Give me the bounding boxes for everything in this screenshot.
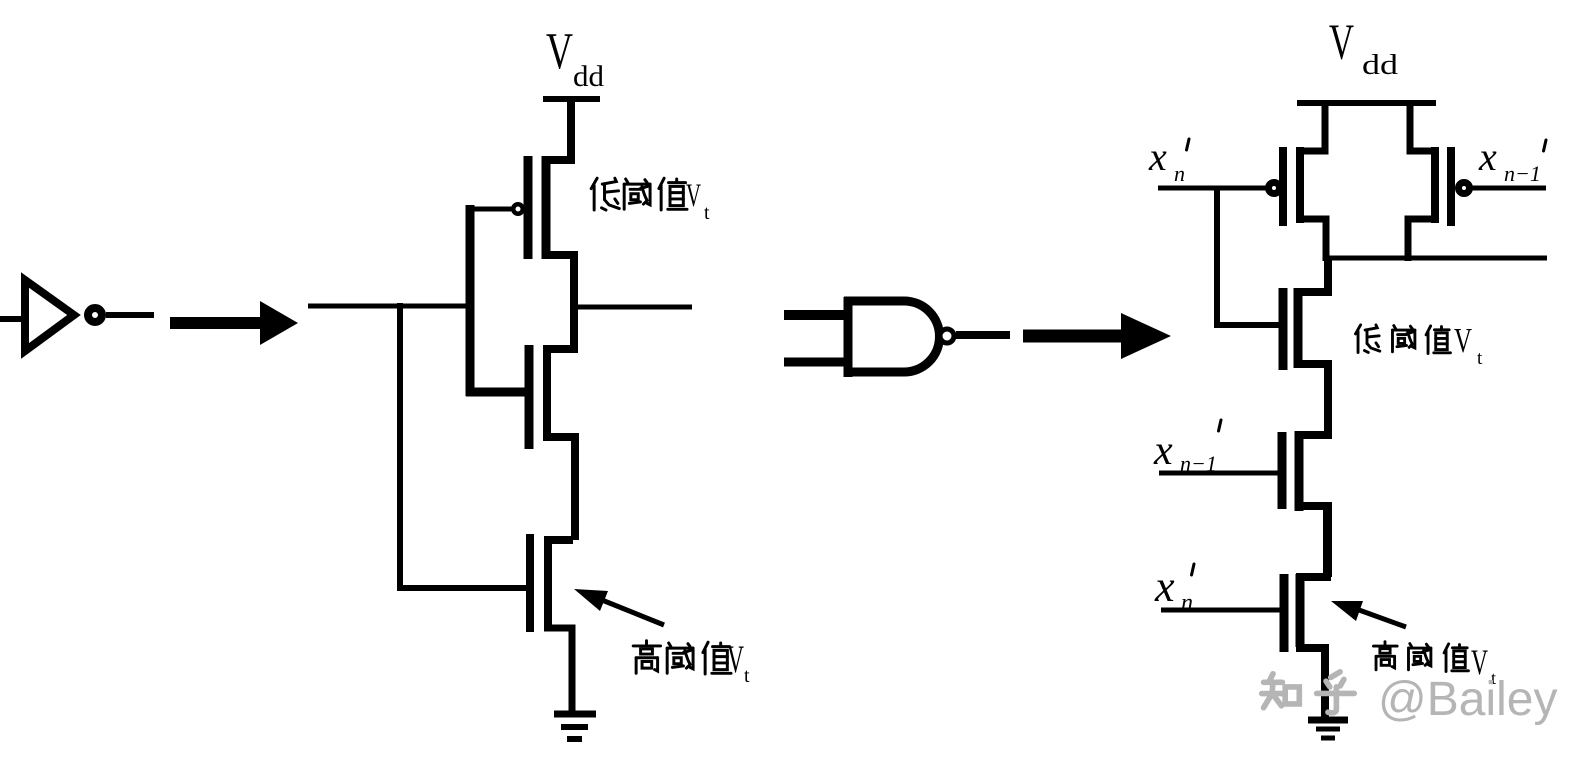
annotation arrow to high-Vt left — [574, 589, 664, 625]
transistor Q7 NMOS channel bar — [1295, 431, 1304, 511]
wire junction node line — [1329, 256, 1547, 261]
transistor Q6 drain lead — [1294, 256, 1328, 292]
svg-text:V: V — [546, 23, 573, 80]
wire branch to high-Vt gate — [400, 303, 528, 588]
inverter output wire — [106, 312, 154, 318]
NAND output wire — [956, 331, 1010, 339]
NAND gate input wires — [784, 315, 850, 362]
ground symbol right — [1308, 720, 1348, 738]
transistor Q6 NMOS low-Vt channel bar — [1294, 288, 1303, 368]
inverter gate symbol triangle — [25, 280, 74, 351]
transistor Q3 source lead — [544, 628, 572, 712]
svg-text:V: V — [1329, 15, 1354, 71]
transistor Q4 PMOS gate bar — [1279, 147, 1287, 226]
transistor Q6 NMOS low-Vt gate bar — [1279, 288, 1288, 370]
svg-text:n: n — [1181, 590, 1193, 616]
label low threshold Vt left — [591, 178, 687, 210]
label xn' bottom — [1154, 562, 1194, 616]
transistor Q2 NMOS low-Vt gate stub — [466, 388, 531, 397]
transistor Q8 NMOS high-Vt gate bar — [1280, 574, 1289, 652]
transistor Q7 NMOS xn-1 gate bar — [1278, 432, 1287, 509]
svg-text:x: x — [1148, 134, 1167, 179]
label high threshold Vt left — [633, 641, 731, 674]
power Vdd rail left — [543, 96, 600, 102]
wire xn' input — [1158, 186, 1267, 191]
wire branch xn' down to N3 gate — [1217, 188, 1281, 325]
wire input to inverter circuit — [308, 304, 469, 309]
svg-text:V: V — [1454, 321, 1472, 360]
svg-text:dd: dd — [573, 60, 604, 93]
transistor Q2 source lead — [543, 437, 575, 540]
svg-text:t: t — [704, 202, 710, 224]
big arrow 2 — [1023, 313, 1171, 359]
svg-text:t: t — [1477, 348, 1483, 369]
wire output left circuit — [578, 305, 692, 310]
wire gate rail — [466, 205, 475, 396]
svg-text:V: V — [686, 178, 701, 214]
transistor Q5 PMOS gate bar — [1447, 147, 1455, 226]
transistor Q5 PMOS right bubble — [1459, 183, 1470, 194]
svg-text:x: x — [1153, 428, 1173, 474]
label Vdd left — [546, 23, 604, 93]
inverter output bubble — [88, 308, 102, 322]
transistor Q2 drain lead — [543, 345, 574, 353]
NAND gate bubble — [940, 329, 954, 343]
transistor Q7 source lead — [1295, 506, 1328, 577]
label xn' top left — [1148, 134, 1189, 186]
NAND gate body — [844, 297, 940, 377]
inverter gate symbol input wire — [0, 316, 24, 322]
svg-text:x: x — [1154, 562, 1175, 611]
annotation arrow to high-Vt right — [1331, 601, 1406, 627]
transistor Q6 source lead — [1294, 364, 1328, 439]
transistor Q3 NMOS high-Vt channel bar — [544, 536, 552, 630]
power Vdd rail right — [1297, 100, 1436, 106]
svg-text:V: V — [727, 638, 744, 681]
transistor Q2 NMOS low-Vt channel bar — [543, 345, 551, 439]
transistor Q7 drain lead — [1295, 364, 1328, 435]
transistor Q4 source lead to Vdd — [1296, 103, 1325, 151]
label high threshold Vt right — [1373, 642, 1468, 672]
big arrow 1 — [170, 301, 298, 345]
svg-text:n−1: n−1 — [1180, 451, 1217, 476]
transistor Q1 PMOS low-Vt channel bar — [542, 156, 551, 259]
transistor Q5 drain lead — [1408, 219, 1439, 261]
wire xn' gate input bottom — [1161, 608, 1280, 613]
transistor Q4 drain lead — [1296, 219, 1326, 261]
svg-text:t: t — [744, 665, 750, 687]
wire xn-1 gate input — [1159, 471, 1278, 476]
transistor Q5 PMOS channel bar — [1431, 147, 1439, 223]
svg-text:dd: dd — [1362, 49, 1399, 81]
wire xn-1' output right — [1471, 186, 1546, 191]
label xn-1' top right — [1478, 134, 1546, 186]
label low threshold Vt right — [1355, 325, 1450, 354]
transistor Q8 drain lead — [1296, 506, 1327, 577]
transistor Q1 PMOS low-Vt gate bar — [524, 156, 533, 259]
transistor Q8 NMOS high-Vt channel bar — [1296, 574, 1305, 647]
transistor Q1 PMOS low-Vt bubble — [513, 204, 523, 214]
svg-text:@Bailey: @Bailey — [1378, 673, 1557, 726]
transistor Q4 PMOS channel bar — [1296, 147, 1304, 223]
transistor Q3 drain lead — [544, 536, 573, 544]
transistor Q5 source lead to Vdd — [1410, 103, 1439, 151]
label xn-1 middle — [1153, 420, 1221, 476]
wire PMOS bubble lead — [466, 207, 512, 212]
transistor Q3 NMOS high-Vt gate bar — [526, 534, 534, 632]
transistor Q8 source lead — [1296, 648, 1325, 719]
transistor Q2 NMOS low-Vt gate bar — [525, 345, 534, 449]
label Vdd right — [1329, 15, 1399, 81]
transistor Q1 drain lead — [542, 255, 574, 353]
transistor Q4 PMOS left bubble — [1269, 183, 1280, 194]
transistor Q1 source lead to Vdd — [542, 99, 571, 160]
svg-text:x: x — [1478, 134, 1497, 179]
watermark zhihu @Bailey — [1262, 672, 1355, 713]
ground symbol left — [554, 714, 596, 739]
svg-text:n: n — [1174, 161, 1185, 186]
svg-text:n−1: n−1 — [1504, 161, 1541, 186]
